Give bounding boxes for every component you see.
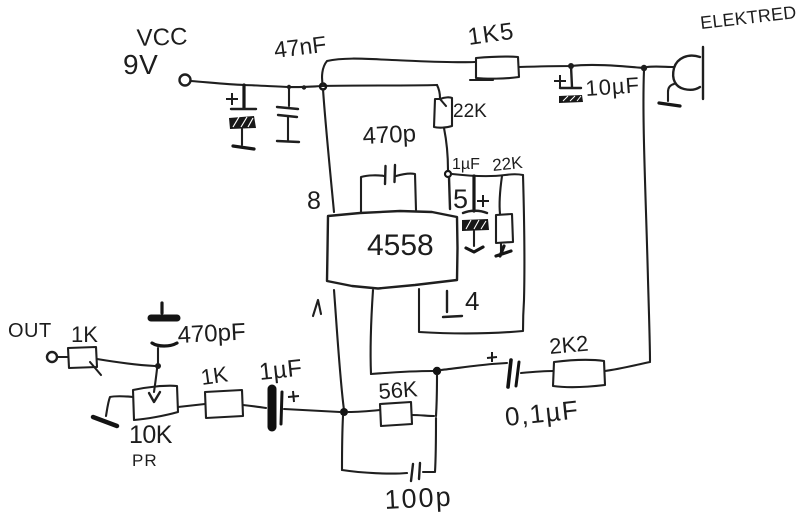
wire 1K to node C (97, 359, 155, 366)
svg-text:1K: 1K (71, 322, 98, 347)
op-amp U1 4558 (327, 211, 458, 289)
resistor 22K top (434, 97, 487, 127)
wire pin8 branch (323, 89, 334, 212)
VCC terminal (180, 75, 191, 86)
svg-text:1K: 1K (199, 361, 229, 390)
wire 1uF to node A (284, 409, 340, 412)
svg-text:9V: 9V (123, 49, 158, 80)
svg-text:8: 8 (307, 187, 321, 215)
svg-text:10K: 10K (129, 421, 173, 449)
wire pin 1 down to node A (334, 290, 344, 410)
ground (466, 247, 483, 252)
wire pot to 1K (178, 404, 205, 407)
node B junction dot (433, 367, 441, 375)
node VCC label (123, 23, 188, 80)
wire OUT to 1K (57, 356, 68, 358)
node pin 1 label (313, 300, 321, 316)
wire capsule to ground (668, 84, 674, 101)
node pin5 junction ring (445, 171, 451, 177)
wire pin5 network box right/bottom/left (419, 175, 524, 333)
wire 1K5 to mic junctions (519, 65, 644, 68)
node junction dot (287, 85, 291, 89)
svg-text:22K: 22K (491, 153, 524, 175)
resistor 22K pin5 (491, 153, 524, 251)
svg-text:4558: 4558 (367, 229, 434, 262)
wire node B to 0.1uF (441, 363, 507, 370)
wire pin 4 stub (446, 291, 448, 312)
node junction ring (320, 84, 326, 90)
wire 1K to 1uF (243, 405, 266, 408)
wire 47nF branch up and right to 1K5 (322, 59, 475, 86)
resistor 2K2 (548, 331, 605, 387)
capacitor 470pF (151, 303, 246, 363)
ground (496, 246, 511, 256)
svg-text:100p: 100p (384, 481, 454, 514)
ground pin4 bar (443, 316, 462, 317)
ground (93, 417, 117, 426)
resistor 1K5 (466, 18, 519, 80)
svg-text:4: 4 (465, 286, 479, 316)
capacitor electrolytic C1 (226, 85, 256, 145)
wire mic junction to capsule (647, 66, 674, 69)
svg-text:56K: 56K (378, 376, 419, 404)
node junction dot (568, 63, 574, 69)
svg-text:VCC: VCC (136, 23, 188, 52)
wire 0.1uF to 2K2 (521, 371, 553, 373)
capacitor 1uF coupling (258, 355, 304, 427)
ground (233, 146, 254, 149)
OUT terminal (47, 352, 57, 362)
wire 22K to pin5 node (444, 128, 448, 170)
svg-text:PR: PR (132, 451, 158, 470)
wire rail corner into 22K (437, 85, 440, 98)
capacitor 470p (361, 120, 417, 212)
wire VCC rail (191, 81, 437, 87)
wire pot left to ground (106, 396, 133, 416)
resistor 1K output (68, 322, 101, 375)
capacitor 0.1uF (487, 352, 581, 432)
wire wiper arrow into pot (154, 369, 157, 392)
node C junction dot (155, 363, 161, 369)
wire pin 2 stub (371, 290, 373, 374)
node junction dot (641, 65, 647, 71)
wire 2K2 to right vertical (605, 362, 650, 371)
resistor 56K feedback (348, 375, 437, 426)
capacitor 47nF C2 (272, 31, 327, 140)
wire right vertical mic to 2K2 (643, 70, 650, 361)
svg-text:22K: 22K (453, 101, 487, 122)
microphone ELEKTRED capsule (673, 2, 797, 99)
ground (659, 103, 680, 106)
svg-text:OUT: OUT (8, 320, 52, 342)
wire pin 5 stub (449, 177, 450, 209)
node A junction dot (340, 408, 348, 416)
capacitor 100p feedback (342, 416, 453, 514)
node junction dot (302, 85, 306, 89)
svg-text:2K2: 2K2 (548, 331, 589, 359)
resistor 1K bottom (199, 361, 243, 418)
capacitor 10uF (554, 66, 641, 103)
svg-text:1µF: 1µF (258, 355, 304, 386)
svg-text:470pF: 470pF (177, 318, 246, 349)
svg-text:1µF: 1µF (452, 156, 480, 173)
potentiometer 10K PR (129, 386, 178, 470)
wire pin2 to node B (371, 371, 433, 374)
wire pin5 network top (452, 174, 523, 176)
svg-text:470p: 470p (362, 120, 417, 150)
svg-text:5: 5 (453, 184, 468, 214)
capacitor 1uF pin5 (452, 156, 489, 246)
ground (277, 141, 299, 142)
svg-text:10µF: 10µF (585, 72, 641, 101)
